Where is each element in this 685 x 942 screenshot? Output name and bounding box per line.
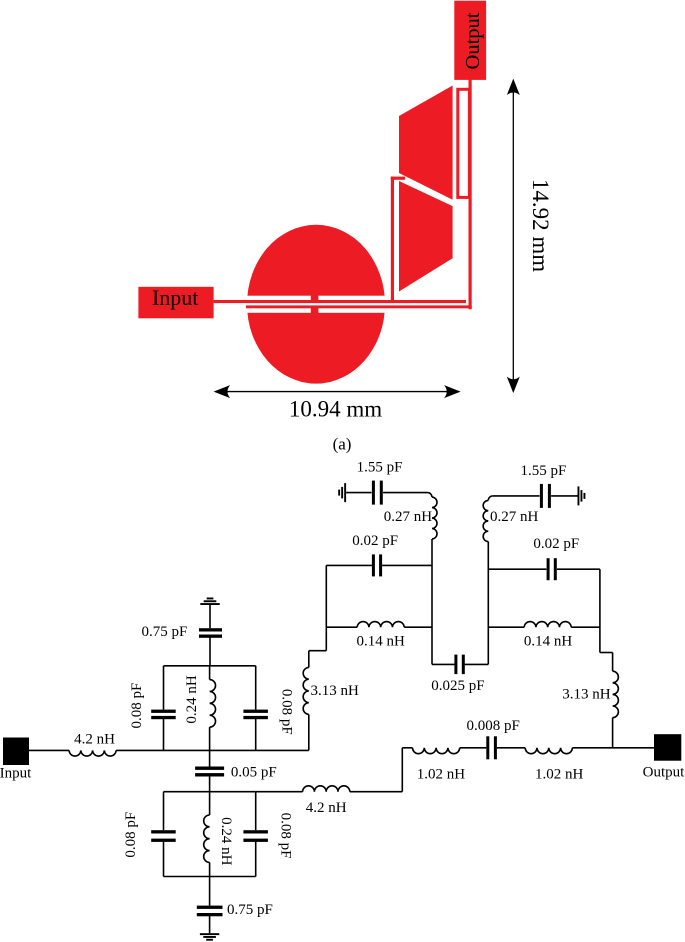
circular patch (red disc) xyxy=(247,225,385,384)
label 0.02 pF (left) xyxy=(352,533,398,549)
inductor 0.14 nH (right box) xyxy=(524,622,571,628)
thin line left of lower parallelogram xyxy=(391,177,394,302)
label 0.02 pF (right) xyxy=(533,536,579,552)
svg-text:Output: Output xyxy=(462,12,484,69)
capacitor 0.025 pF (series) xyxy=(454,655,464,675)
ground (left, sideways) xyxy=(338,483,346,502)
svg-text:1.55 pF: 1.55 pF xyxy=(357,460,403,476)
svg-text:0.08 pF: 0.08 pF xyxy=(279,689,295,735)
label 0.27 nH (right) xyxy=(490,509,539,525)
svg-text:0.14 nH: 0.14 nH xyxy=(357,634,406,650)
capacitor 0.02 pF (right box) xyxy=(547,558,557,580)
inductor 1.02 nH (2nd) xyxy=(525,748,572,754)
ground (right, sideways) xyxy=(578,486,586,505)
inductor 0.14 nH (left box) xyxy=(357,622,404,628)
svg-text:0.75 pF: 0.75 pF xyxy=(141,624,187,640)
capacitor 0.08 pF (upper left) xyxy=(151,710,176,720)
vertical feed line to Output xyxy=(469,79,472,310)
inductor 0.24 nH (lower tank) xyxy=(204,815,210,862)
wire 1.55pF row (left) xyxy=(346,492,427,494)
label 0.75 pF (upper) xyxy=(141,624,187,640)
svg-text:0.02 pF: 0.02 pF xyxy=(533,536,579,552)
white slot band across patch xyxy=(240,296,390,313)
inductor 0.27 nH (right, vertical) xyxy=(483,496,493,542)
inductor 3.13 nH (right) xyxy=(613,671,619,717)
svg-text:0.025 pF: 0.025 pF xyxy=(431,678,484,694)
label 0.08 pF (lower right, rotated) xyxy=(277,813,293,859)
label 10.94 mm xyxy=(289,397,382,422)
capacitor 0.08 pF (lower right) xyxy=(243,830,268,842)
slot ring beside upper parallelogram xyxy=(458,89,470,197)
label 0.24 nH (upper, rotated) xyxy=(184,675,200,724)
capacitor 0.05 pF (series) xyxy=(195,767,224,777)
label 0.08 pF (upper left, rotated) xyxy=(129,683,145,729)
label 3.13 nH (left) xyxy=(311,683,360,699)
left box right vertical xyxy=(431,539,433,664)
patch bridge lower xyxy=(311,308,319,313)
right box bottom rail xyxy=(488,626,600,628)
label 0.14 nH (right) xyxy=(524,634,573,650)
svg-text:0.02 pF: 0.02 pF xyxy=(352,533,398,549)
inductor 1.02 nH (1st) xyxy=(413,748,460,754)
wire input to L 4.2nH xyxy=(29,749,69,751)
label 3.13 nH (right) xyxy=(562,687,611,703)
svg-text:3.13 nH: 3.13 nH xyxy=(562,687,611,703)
svg-text:14.92 mm: 14.92 mm xyxy=(528,179,553,272)
lower tank right vertical xyxy=(255,792,257,877)
inductor 3.13 nH (left) xyxy=(303,667,309,714)
riser to output rail xyxy=(401,748,403,792)
stub at top of thin line xyxy=(391,177,405,180)
Output port label xyxy=(643,765,685,781)
upper tank inductor stubs xyxy=(209,666,211,751)
wire L3.13 right to output rail xyxy=(612,718,614,748)
left box left vertical xyxy=(325,565,327,627)
svg-text:0.08 pF: 0.08 pF xyxy=(129,683,145,729)
Input port label xyxy=(0,766,32,782)
inductor 0.27 nH (left, vertical) xyxy=(428,493,438,539)
capacitor 1.55 pF (right) xyxy=(540,484,551,508)
capacitor 0.008 pF (series) xyxy=(486,736,497,759)
wire to Output port xyxy=(572,747,654,749)
Output label (rotated) xyxy=(462,12,484,69)
left box bottom rail xyxy=(326,626,432,628)
svg-text:(a): (a) xyxy=(333,435,352,454)
svg-text:Input: Input xyxy=(0,766,32,782)
label 4.2 nH (2nd) xyxy=(306,800,347,816)
left box top rail xyxy=(326,564,432,566)
label 0.27 nH (left) xyxy=(384,509,433,525)
svg-text:4.2 nH: 4.2 nH xyxy=(306,800,347,816)
lower parallelogram patch xyxy=(399,181,453,292)
svg-text:1.55 pF: 1.55 pF xyxy=(520,463,566,479)
wire C0.75 to tank top xyxy=(209,637,211,665)
wire tank to C0.75 (lower) xyxy=(209,877,211,906)
wire lower tank to L4.2 (2nd) xyxy=(256,791,303,793)
svg-text:0.75 pF: 0.75 pF xyxy=(227,902,273,918)
svg-text:0.08 pF: 0.08 pF xyxy=(123,812,139,858)
Output port pad xyxy=(454,1,486,80)
vertical dimension line 14.92 mm xyxy=(507,79,520,394)
label 0.008 pF xyxy=(467,718,520,734)
wire L3.13 top jog xyxy=(309,627,327,667)
upper parallelogram patch xyxy=(399,86,453,200)
Input label xyxy=(152,285,198,310)
svg-text:0.27 nH: 0.27 nH xyxy=(384,509,433,525)
svg-text:0.08 pF: 0.08 pF xyxy=(277,813,293,859)
label 1.02 nH (2nd) xyxy=(535,767,584,783)
label 0.08 pF (upper right, rotated) xyxy=(279,689,295,735)
wire C0.75 to ground (bottom) xyxy=(209,916,211,934)
label 1.55 pF (right) xyxy=(520,463,566,479)
wire to C0.025 (left) xyxy=(432,663,455,665)
lower feed line (to Output corner) xyxy=(246,305,472,308)
label 0.14 nH (left) xyxy=(357,634,406,650)
output rail segment 1 xyxy=(402,747,412,749)
lower tank top rail xyxy=(164,791,256,793)
svg-text:4.2 nH: 4.2 nH xyxy=(74,732,115,748)
svg-text:Input: Input xyxy=(152,285,198,310)
capacitor 0.02 pF (left box) xyxy=(372,554,382,576)
svg-text:0.24 nH: 0.24 nH xyxy=(184,675,200,724)
label 0.05 pF xyxy=(231,765,277,781)
lower tank inductor stubs xyxy=(209,792,211,877)
patch bridge upper xyxy=(311,295,319,300)
label 0.75 pF (lower) xyxy=(227,902,273,918)
svg-text:Output: Output xyxy=(643,765,685,781)
wire rail to C0.05 xyxy=(209,750,211,766)
wire L4.2 to riser xyxy=(350,791,403,793)
capacitor 0.08 pF (lower left) xyxy=(151,830,176,842)
label 14.92 mm (rotated) xyxy=(528,179,553,272)
Input port pad xyxy=(138,287,213,319)
inductor 4.2 nH (2nd) xyxy=(303,786,350,792)
right box left vertical xyxy=(487,542,489,665)
ground (top, upper tank) xyxy=(200,598,219,606)
svg-text:0.24 nH: 0.24 nH xyxy=(218,817,234,866)
wire L4.2 to tank rail xyxy=(116,749,163,751)
svg-text:0.14 nH: 0.14 nH xyxy=(524,634,573,650)
capacitor 0.75 pF (lower) xyxy=(197,906,223,917)
label 1.55 pF (left) xyxy=(357,460,403,476)
label 1.02 nH (1st) xyxy=(417,767,466,783)
wire C0.05 to lower tank xyxy=(209,776,211,792)
label 4.2 nH xyxy=(74,732,115,748)
label 0.025 pF xyxy=(431,678,484,694)
svg-text:3.13 nH: 3.13 nH xyxy=(311,683,360,699)
upper tank left vertical xyxy=(163,666,165,751)
capacitor 0.08 pF (upper right) xyxy=(243,710,268,720)
riser to L3.13 left xyxy=(308,714,310,750)
right box right vertical xyxy=(599,569,601,627)
lower tank bottom rail xyxy=(164,876,256,878)
wire C0.025 to right box xyxy=(465,663,489,665)
wire C0.008 to L1.02 (2nd) xyxy=(497,747,525,749)
right box drop jog xyxy=(600,627,613,671)
port Input (black square) xyxy=(3,738,29,766)
inductor 4.2 nH (series, input) xyxy=(69,750,116,756)
capacitor 1.55 pF (left) xyxy=(372,481,383,505)
svg-text:1.02 nH: 1.02 nH xyxy=(417,767,466,783)
svg-text:0.27 nH: 0.27 nH xyxy=(490,509,539,525)
right box top rail xyxy=(488,568,600,570)
svg-text:0.008 pF: 0.008 pF xyxy=(467,718,520,734)
upper feed line (from Input) xyxy=(214,300,466,303)
wire gnd to C0.75 xyxy=(209,605,211,628)
lower tank left vertical xyxy=(163,792,165,877)
caption (a) xyxy=(333,435,352,454)
label 0.08 pF (lower left, rotated) xyxy=(123,812,139,858)
main rail under upper tank xyxy=(164,749,309,751)
wire to C0.008 xyxy=(460,747,487,749)
inductor 0.24 nH (upper tank) xyxy=(210,680,216,728)
capacitor 0.75 pF (upper) xyxy=(199,628,222,638)
wire 1.55pF row (right) xyxy=(493,495,578,497)
upper tank top rail xyxy=(164,665,256,667)
svg-text:0.05 pF: 0.05 pF xyxy=(231,765,277,781)
horizontal dimension line 10.94 mm xyxy=(214,385,461,398)
svg-text:10.94 mm: 10.94 mm xyxy=(289,397,382,422)
upper tank right vertical xyxy=(255,666,257,751)
svg-text:1.02 nH: 1.02 nH xyxy=(535,767,584,783)
ground (bottom) xyxy=(200,933,219,941)
label 0.24 nH (lower, rotated) xyxy=(218,817,234,866)
port Output (black square) xyxy=(654,734,681,761)
